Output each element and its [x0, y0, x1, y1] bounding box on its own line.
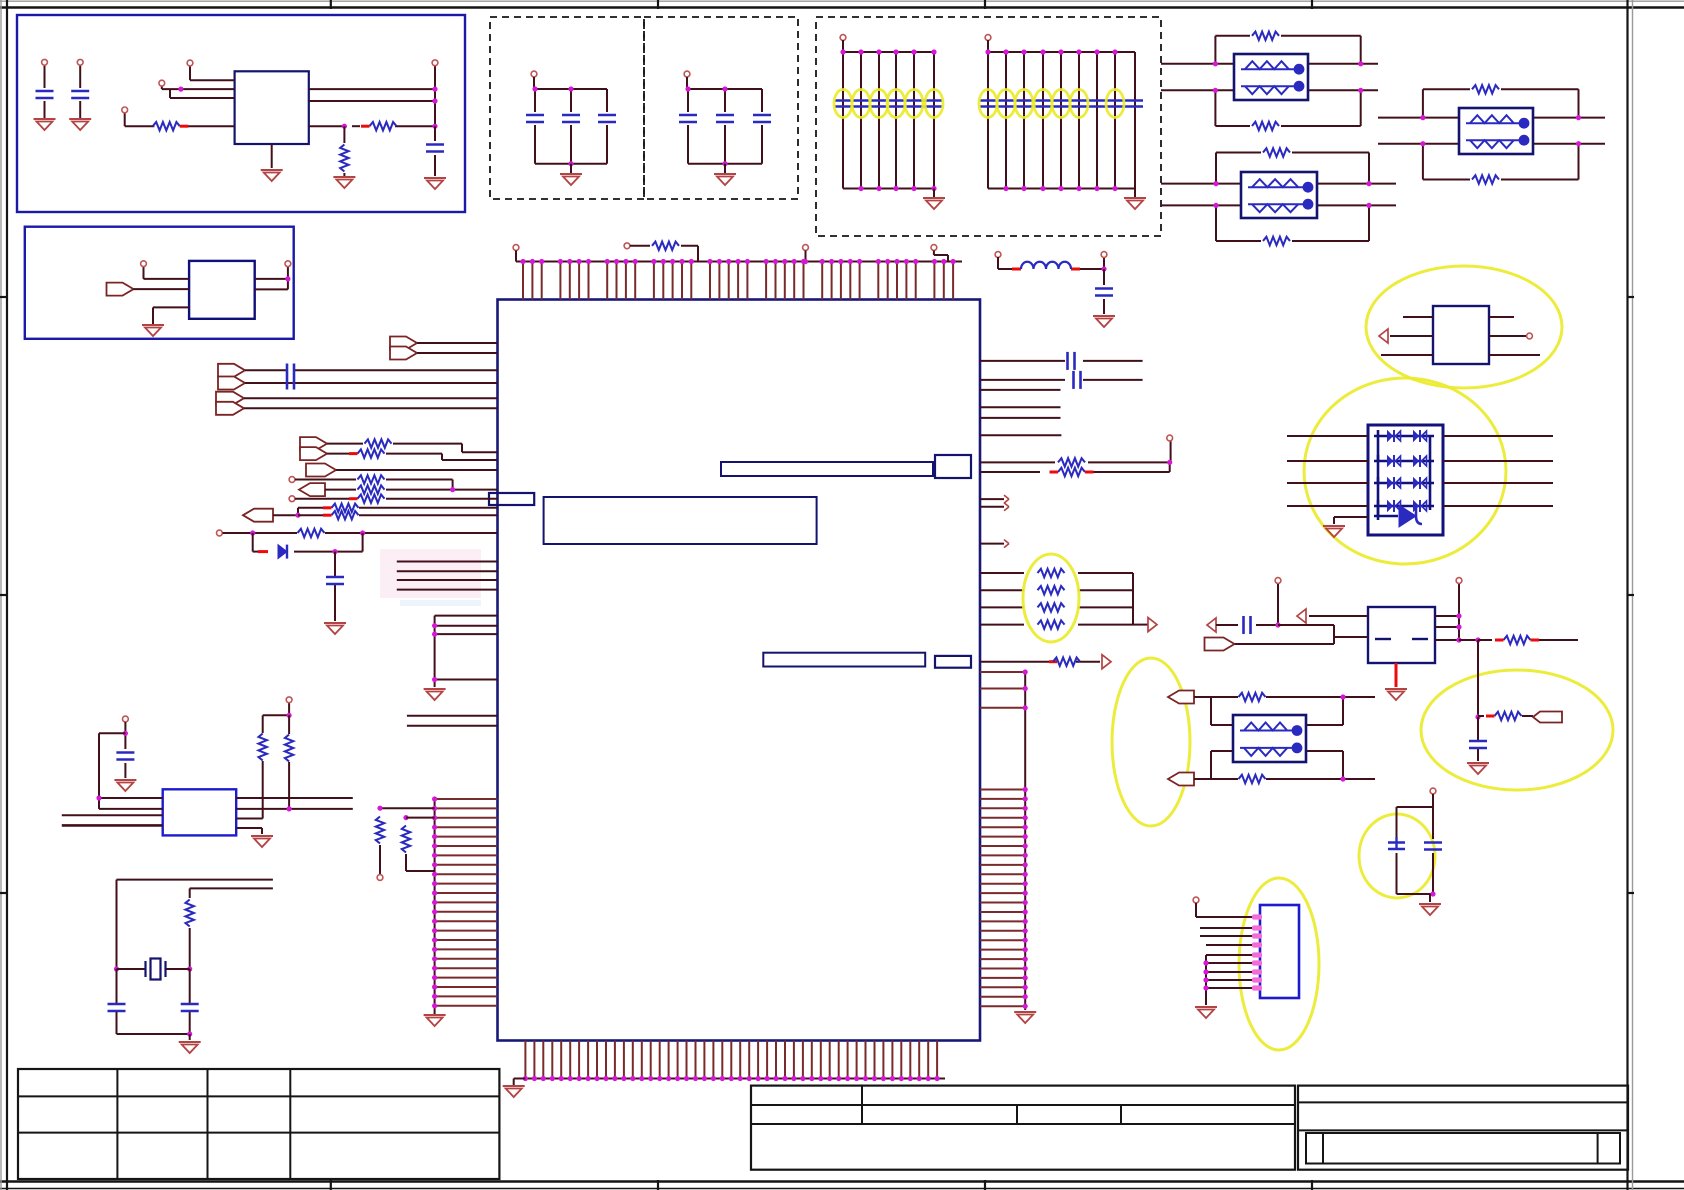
highlight ellipse: [925, 90, 943, 118]
highlight ellipse: [887, 90, 905, 118]
capacitor C14: [116, 753, 134, 760]
wire: [980, 606, 1133, 608]
wire right bus: [1024, 672, 1026, 1010]
wire: [630, 246, 698, 262]
port SDA: [243, 509, 273, 522]
wire: [295, 480, 453, 490]
resistor R43: [358, 485, 385, 493]
wire: [1114, 52, 1116, 189]
port pair CLK b: [216, 402, 244, 415]
wire: [980, 543, 1004, 545]
wire: [1235, 625, 1369, 644]
wire: [980, 360, 1143, 362]
wire: [1060, 52, 1062, 189]
highlight ellipse: [1070, 90, 1088, 118]
wire: [1478, 639, 1578, 641]
terminal: [187, 60, 193, 66]
ground: [179, 1042, 201, 1053]
terminal: [1193, 897, 1199, 903]
terminal: [531, 71, 537, 77]
wire: [99, 733, 125, 809]
wire: [434, 126, 436, 176]
junction: [114, 966, 192, 971]
wire: [1459, 639, 1478, 641]
resistor R31: [402, 826, 410, 853]
wire: [998, 257, 1104, 269]
filter A resistor top: [1252, 32, 1279, 40]
port pair DATA b: [300, 447, 327, 460]
wire: [1206, 987, 1260, 989]
capacitor: [679, 115, 697, 122]
wire cap line: [835, 101, 942, 107]
U10 inner label box 1b: [935, 455, 971, 478]
regulator U1: [235, 71, 309, 144]
wire top rail: [535, 88, 607, 90]
wire: [1443, 435, 1553, 437]
wire: [980, 406, 1061, 408]
wire loop: [1215, 36, 1360, 126]
filter C resistor bottom: [1472, 175, 1499, 183]
wire: [1489, 317, 1540, 355]
junction: [187, 1031, 192, 1036]
port arrow: [1379, 329, 1388, 343]
port pair DATA a: [300, 437, 327, 450]
terminal P2: [77, 59, 83, 65]
resistor R25: [1038, 603, 1065, 611]
title block left: [751, 1086, 1295, 1170]
ground: [34, 119, 56, 130]
highlight ellipse: [1052, 90, 1070, 118]
wire bottom rail: [988, 188, 1135, 190]
wire: [99, 797, 163, 799]
wire: [1429, 894, 1431, 902]
wire: [1206, 979, 1260, 981]
diode pair: [1414, 477, 1427, 489]
wire: [1161, 64, 1378, 91]
wire: [134, 288, 190, 290]
ground: [333, 177, 355, 188]
junction: [1430, 891, 1435, 896]
wire: [570, 89, 572, 164]
wire: [1443, 505, 1553, 507]
junction: [377, 806, 408, 821]
wire: [895, 52, 897, 189]
wire: [761, 89, 763, 164]
wire: [980, 506, 1004, 508]
wire: [1023, 52, 1025, 189]
highlight ellipse: [870, 90, 888, 118]
diode array U5 outer: [1368, 425, 1443, 535]
resistor R30: [376, 817, 384, 844]
wire: [534, 89, 536, 164]
junction: [450, 487, 455, 492]
capacitor: [753, 115, 771, 122]
decoupling box B: [644, 17, 798, 199]
port arrow 2: [1207, 618, 1216, 632]
U10 inner label box 2: [544, 497, 817, 544]
ground: [1385, 689, 1407, 700]
pin stub arrow: [1004, 503, 1009, 511]
ground: [1195, 1007, 1217, 1018]
wire: [325, 489, 498, 491]
wire: [606, 89, 608, 164]
ground: [1419, 904, 1441, 915]
capacitor C10: [287, 364, 294, 390]
ground: [424, 689, 446, 700]
wire: [980, 498, 1004, 500]
filter B resistor top: [1263, 148, 1290, 156]
wire: [397, 562, 498, 590]
junction: [432, 87, 437, 104]
wire: [1287, 435, 1368, 437]
crystal Y1: [146, 959, 166, 980]
wire: [933, 189, 935, 198]
resistor R24: [1038, 586, 1065, 594]
wire: [980, 589, 1133, 591]
resistor R44: [349, 495, 385, 503]
junction: [1167, 460, 1172, 465]
U10 inner label box 1: [721, 462, 933, 476]
junction right bus: [1023, 669, 1028, 1008]
capacitor C1: [36, 91, 54, 98]
capacitor: [562, 115, 580, 122]
terminal: [624, 243, 630, 249]
wire: [288, 715, 290, 809]
port LVDS2: [1168, 773, 1194, 786]
red mark: [1012, 268, 1021, 271]
filter D common-mode choke: [1233, 715, 1306, 762]
junction: [803, 259, 808, 264]
filter B resistor bottom: [1263, 237, 1290, 245]
wire: [236, 828, 262, 834]
junction top bus: [520, 259, 955, 264]
wire: [570, 164, 572, 173]
capacitor C33: [1424, 843, 1442, 850]
pin stub arrow: [1004, 495, 1009, 503]
filter C resistor top: [1472, 85, 1499, 93]
wire: [144, 267, 190, 279]
junction: [1475, 637, 1480, 642]
wire loop: [1423, 89, 1579, 179]
terminal: [513, 245, 519, 251]
wire: [980, 624, 1133, 626]
ground: [261, 170, 283, 181]
highlight ellipse: [1106, 90, 1124, 118]
resistor R3: [340, 145, 348, 172]
terminal: [803, 245, 809, 251]
wire: [933, 52, 935, 189]
wire: [1378, 118, 1605, 144]
highlight ellipse: [979, 90, 997, 118]
junction: [250, 530, 365, 535]
port pair CLK a: [216, 392, 244, 405]
wire: [980, 379, 1143, 381]
junction top: [840, 49, 936, 54]
pin stub arrow: [1004, 540, 1009, 548]
highlight ellipse E2: [1304, 378, 1506, 564]
wire: [223, 532, 498, 534]
wire: [434, 1013, 436, 1014]
wire bottom bus: [525, 1078, 945, 1080]
wire: [842, 52, 844, 189]
interface IC U3: [163, 789, 237, 835]
highlight band 2: [400, 600, 481, 606]
wire: [189, 928, 191, 969]
junction: [1101, 266, 1106, 271]
U10 left edge label box: [489, 493, 534, 505]
junction: [1213, 181, 1371, 208]
diode array internal ladder: [1374, 430, 1434, 520]
wire: [1211, 697, 1343, 725]
wire: [253, 533, 363, 552]
wire: [514, 1079, 526, 1086]
terminal: [1275, 578, 1281, 584]
wire: [1200, 928, 1260, 945]
wire: [245, 370, 498, 383]
ground: [1124, 198, 1146, 209]
wire pin3: [170, 90, 235, 99]
filter B common-mode choke: [1241, 172, 1317, 218]
diode pair: [1388, 430, 1401, 442]
ground: [251, 836, 273, 847]
wire: [79, 65, 81, 118]
ground: [69, 119, 91, 130]
ground: [923, 198, 945, 209]
U7 pin marks: [1252, 914, 1262, 990]
terminal: [840, 35, 846, 41]
terminal: [1456, 578, 1462, 584]
wire: [327, 444, 498, 453]
wire: [273, 508, 498, 515]
resistor R20: [652, 242, 679, 250]
resistor R60: [1495, 636, 1539, 644]
wire: [117, 969, 190, 1034]
capacitor C3: [426, 145, 444, 152]
diode pair: [1388, 500, 1401, 512]
highlight ellipse: [834, 90, 852, 118]
wire: [44, 65, 46, 118]
inductor L1: [1021, 262, 1071, 269]
wire: [435, 616, 498, 687]
wire: [309, 125, 435, 127]
resistor R46: [323, 511, 359, 519]
wire: [336, 469, 498, 471]
ground: [560, 174, 582, 185]
wire bottom rail: [843, 188, 934, 190]
wire: [934, 251, 948, 262]
junction left bus: [432, 796, 437, 1008]
decoupling box A: [490, 17, 644, 199]
capacitor C11: [326, 577, 344, 584]
diode pair: [1414, 455, 1427, 467]
highlight ellipse: [852, 90, 870, 118]
junction: [432, 623, 437, 682]
resistor R51: [259, 734, 267, 761]
terminal: [995, 252, 1001, 258]
wire: [1103, 269, 1105, 314]
wire: [1194, 778, 1375, 780]
wire: [244, 398, 498, 408]
wire: [1096, 52, 1098, 189]
ground: [142, 325, 164, 336]
port RESET: [107, 283, 134, 296]
wire: [1042, 52, 1044, 189]
wire: [1194, 696, 1375, 698]
wire: [417, 343, 498, 353]
wire bottom rail: [688, 163, 762, 165]
port pair RX a: [218, 364, 245, 377]
junction top: [985, 49, 1117, 54]
wire: [406, 817, 435, 819]
highlight ellipse: [905, 90, 923, 118]
wire: [236, 798, 353, 809]
capacitor: [598, 115, 616, 122]
junction: [1275, 622, 1280, 627]
ground: [114, 780, 136, 791]
terminal: [1167, 435, 1173, 441]
red wire: [1395, 663, 1398, 687]
ground: [424, 178, 446, 189]
wire: [117, 968, 190, 970]
port MODE: [299, 483, 325, 496]
wire: [842, 40, 844, 52]
wire: [515, 251, 517, 262]
capacitor C21: [1074, 371, 1081, 389]
junction: [96, 795, 101, 800]
wire pin1: [190, 66, 235, 80]
wire: [860, 52, 862, 189]
junction: [685, 86, 727, 166]
U6 pin dash: [1412, 638, 1428, 640]
capacitor C31: [1469, 741, 1487, 748]
resistor R62: [1239, 693, 1266, 701]
reset section box: [25, 227, 294, 339]
port pair RX b: [218, 377, 245, 390]
wire: [1005, 52, 1007, 189]
wire top rail: [988, 51, 1135, 53]
wire: [1133, 573, 1148, 625]
wire: [153, 307, 189, 324]
junction: [1340, 694, 1345, 781]
resistor R23: [1038, 569, 1065, 577]
wire: [236, 761, 263, 819]
terminal P1: [42, 59, 48, 65]
wire: [1397, 794, 1434, 807]
wire: [327, 454, 498, 460]
resistor R42: [358, 475, 385, 483]
wire: [117, 880, 190, 969]
wire: [271, 144, 273, 168]
wire: [1477, 717, 1479, 761]
capacitor C32 polarized: [1388, 837, 1405, 849]
port arrow: [1102, 655, 1111, 669]
resistor R61: [1486, 712, 1522, 720]
terminal: [985, 35, 991, 41]
port capsule: [1533, 712, 1562, 723]
wire: [980, 434, 1061, 436]
diode D1: [278, 545, 287, 559]
red mark: [258, 550, 268, 553]
reset IC U2: [189, 261, 255, 319]
wire: [980, 572, 1133, 574]
highlight ellipse E4: [1421, 670, 1613, 790]
terminal: [1527, 333, 1533, 339]
ground: [503, 1086, 525, 1097]
junction bottom: [858, 186, 936, 191]
ground: [1093, 316, 1115, 327]
junction: [123, 731, 128, 736]
capacitor: [526, 115, 544, 122]
wire: [263, 703, 289, 733]
ground: [324, 623, 346, 634]
terminal: [285, 261, 291, 267]
wire: [309, 66, 435, 126]
wire: [1381, 317, 1433, 355]
junction bottom bus: [523, 1076, 940, 1081]
wire: [805, 251, 807, 262]
highlight ellipse: [997, 90, 1015, 118]
junction: [287, 713, 292, 718]
U6 pin dash: [1375, 638, 1391, 640]
junction: [332, 549, 337, 554]
U10 top pin stubs: [523, 262, 953, 300]
U10 right pin bundle: [980, 672, 1025, 1006]
port LVDS1: [1168, 691, 1194, 704]
terminal: [289, 477, 295, 483]
resistor R50: [186, 900, 194, 927]
wire: [62, 824, 163, 827]
wire: [124, 722, 126, 778]
wire: [117, 880, 273, 889]
terminal: [217, 530, 223, 536]
wire: [1134, 52, 1136, 189]
wire: [1478, 715, 1533, 717]
bulk capacitor box: [816, 17, 1161, 236]
junction: [1475, 714, 1480, 719]
terminal: [141, 261, 147, 267]
capacitor C2: [71, 91, 89, 98]
capacitor C12: [108, 1004, 126, 1011]
resistor R45: [323, 504, 359, 512]
wire: [987, 52, 989, 189]
ground: [1014, 1012, 1036, 1023]
wire: [1206, 962, 1260, 964]
terminal: [289, 496, 295, 502]
red mark: [1049, 660, 1057, 663]
wire loop: [1216, 153, 1369, 242]
highlight ellipse E7: [1239, 878, 1319, 1050]
wire: [980, 661, 1100, 663]
ground: [714, 174, 736, 185]
wire: [913, 52, 915, 189]
resistor R63: [1239, 775, 1266, 783]
junction: [532, 86, 573, 166]
wire: [99, 808, 163, 810]
junction: [285, 276, 290, 281]
wire: [980, 389, 1061, 391]
highlight ellipse E6: [1359, 814, 1435, 898]
wire top rail: [843, 51, 934, 53]
port pair TX a: [390, 337, 417, 350]
title block right: [1298, 1086, 1628, 1170]
junction: [1420, 115, 1581, 146]
capacitor C22: [1095, 289, 1113, 296]
wire: [334, 552, 336, 621]
resistor R21: [1058, 458, 1085, 466]
junction: [1456, 613, 1461, 642]
junction: [342, 124, 438, 129]
wire top rail: [688, 88, 762, 90]
